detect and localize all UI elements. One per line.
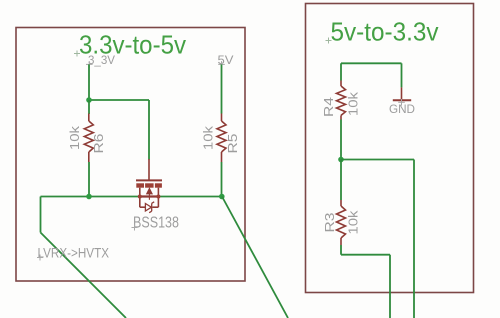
GND pin cross (398, 99, 405, 106)
wire: right column down off-page (413, 160, 415, 318)
gate plate (136, 179, 162, 181)
title label 5v-to-3.3v (331, 17, 439, 47)
transistor Q1 BSS138 (136, 159, 162, 213)
resistor R5 (217, 114, 226, 163)
wire: R3 bottom to lower column (341, 254, 390, 256)
title origin cross (326, 38, 332, 44)
wire: diagonal to LVRX off-page (41, 233, 127, 318)
svg-text:GND: GND (389, 102, 415, 116)
wire: node to R6 top (88, 100, 90, 114)
source stem (157, 188, 159, 208)
gate pin lead (148, 159, 150, 180)
resistor R3 (337, 200, 346, 245)
label R3 (322, 213, 337, 233)
frame: left schematic box (16, 28, 245, 282)
resistor R6 (84, 114, 93, 163)
svg-text:R5: R5 (225, 133, 240, 153)
wire: LV horizontal rail (41, 196, 223, 198)
body diode (145, 204, 151, 212)
body diode loop bottom (140, 206, 146, 208)
svg-text:10k: 10k (67, 125, 82, 150)
wire: R4 bottom to mid node (340, 120, 342, 160)
wire: down to MOSFET gate (148, 100, 150, 160)
svg-text:10k: 10k (346, 210, 361, 235)
wire: mid node to right column (341, 159, 414, 161)
title label 3.3v-to-5v (79, 30, 186, 60)
svg-text:R3: R3 (322, 213, 337, 233)
wire: mid node to R3 top (340, 160, 342, 201)
label GND (389, 102, 415, 116)
label 10k of R3 (346, 210, 361, 235)
label 10k of R5 (200, 125, 215, 150)
svg-text:10k: 10k (346, 91, 361, 116)
channel bar body (145, 183, 154, 187)
svg-text:R6: R6 (91, 134, 106, 154)
wire: GND branch down (401, 63, 403, 87)
label R4 (321, 97, 336, 117)
wire: 3_3V supply down to node (88, 64, 90, 100)
svg-text:R4: R4 (321, 97, 336, 117)
BSS138 origin cross (132, 225, 138, 231)
node: junction R4 / R3 / out (338, 157, 344, 163)
label LVRX->HVTX (38, 246, 110, 261)
svg-text:10k: 10k (200, 125, 215, 150)
node: junction at 3_3V / R6 / gate (86, 97, 92, 103)
node: junction R6 / rail (86, 194, 92, 200)
label 10k of R4 (346, 91, 361, 116)
label BSS138 (133, 215, 179, 232)
svg-text:5v-to-3.3v: 5v-to-3.3v (331, 17, 439, 47)
wire: 5V supply down to R5 (221, 64, 223, 113)
wire: rail left end drop (40, 197, 42, 233)
wire: diagonal to HVTX off-page (222, 197, 288, 318)
pin dot source/rail (156, 195, 160, 199)
wire: R6 bottom to LV rail (88, 162, 90, 197)
bulk arrow (147, 188, 153, 194)
symbol segment over rail (140, 195, 159, 197)
supply 3_3V label (88, 53, 115, 67)
wire: lower column down off-page (389, 255, 391, 318)
svg-text:BSS138: BSS138 (133, 215, 179, 232)
supply 3_3V pin cross (86, 61, 93, 68)
LVRX origin cross (37, 255, 43, 261)
drain stem (139, 188, 141, 208)
supply 5V pin cross (218, 61, 225, 68)
supply 5V label (218, 53, 234, 67)
wire: right box top rail (341, 62, 402, 64)
wire: R5 bottom to HV node (221, 162, 223, 197)
label R5 (225, 133, 240, 153)
resistor R4 (337, 81, 346, 120)
pin dot drain/rail (138, 195, 142, 199)
frame: right schematic box (306, 4, 474, 293)
svg-text:LVRX->HVTX: LVRX->HVTX (38, 246, 110, 261)
node: junction R5 / rail / off-page (219, 194, 225, 200)
title origin cross (74, 51, 80, 57)
wire: top rail down to R4 (340, 63, 342, 80)
label 10k of R6 (67, 125, 82, 150)
wire: R3 bottom (340, 245, 342, 255)
ground GND symbol (393, 87, 411, 100)
wire: node to gate column (89, 99, 149, 101)
label R6 (91, 134, 106, 154)
channel bar source (155, 183, 162, 187)
channel bar drain (136, 183, 144, 187)
